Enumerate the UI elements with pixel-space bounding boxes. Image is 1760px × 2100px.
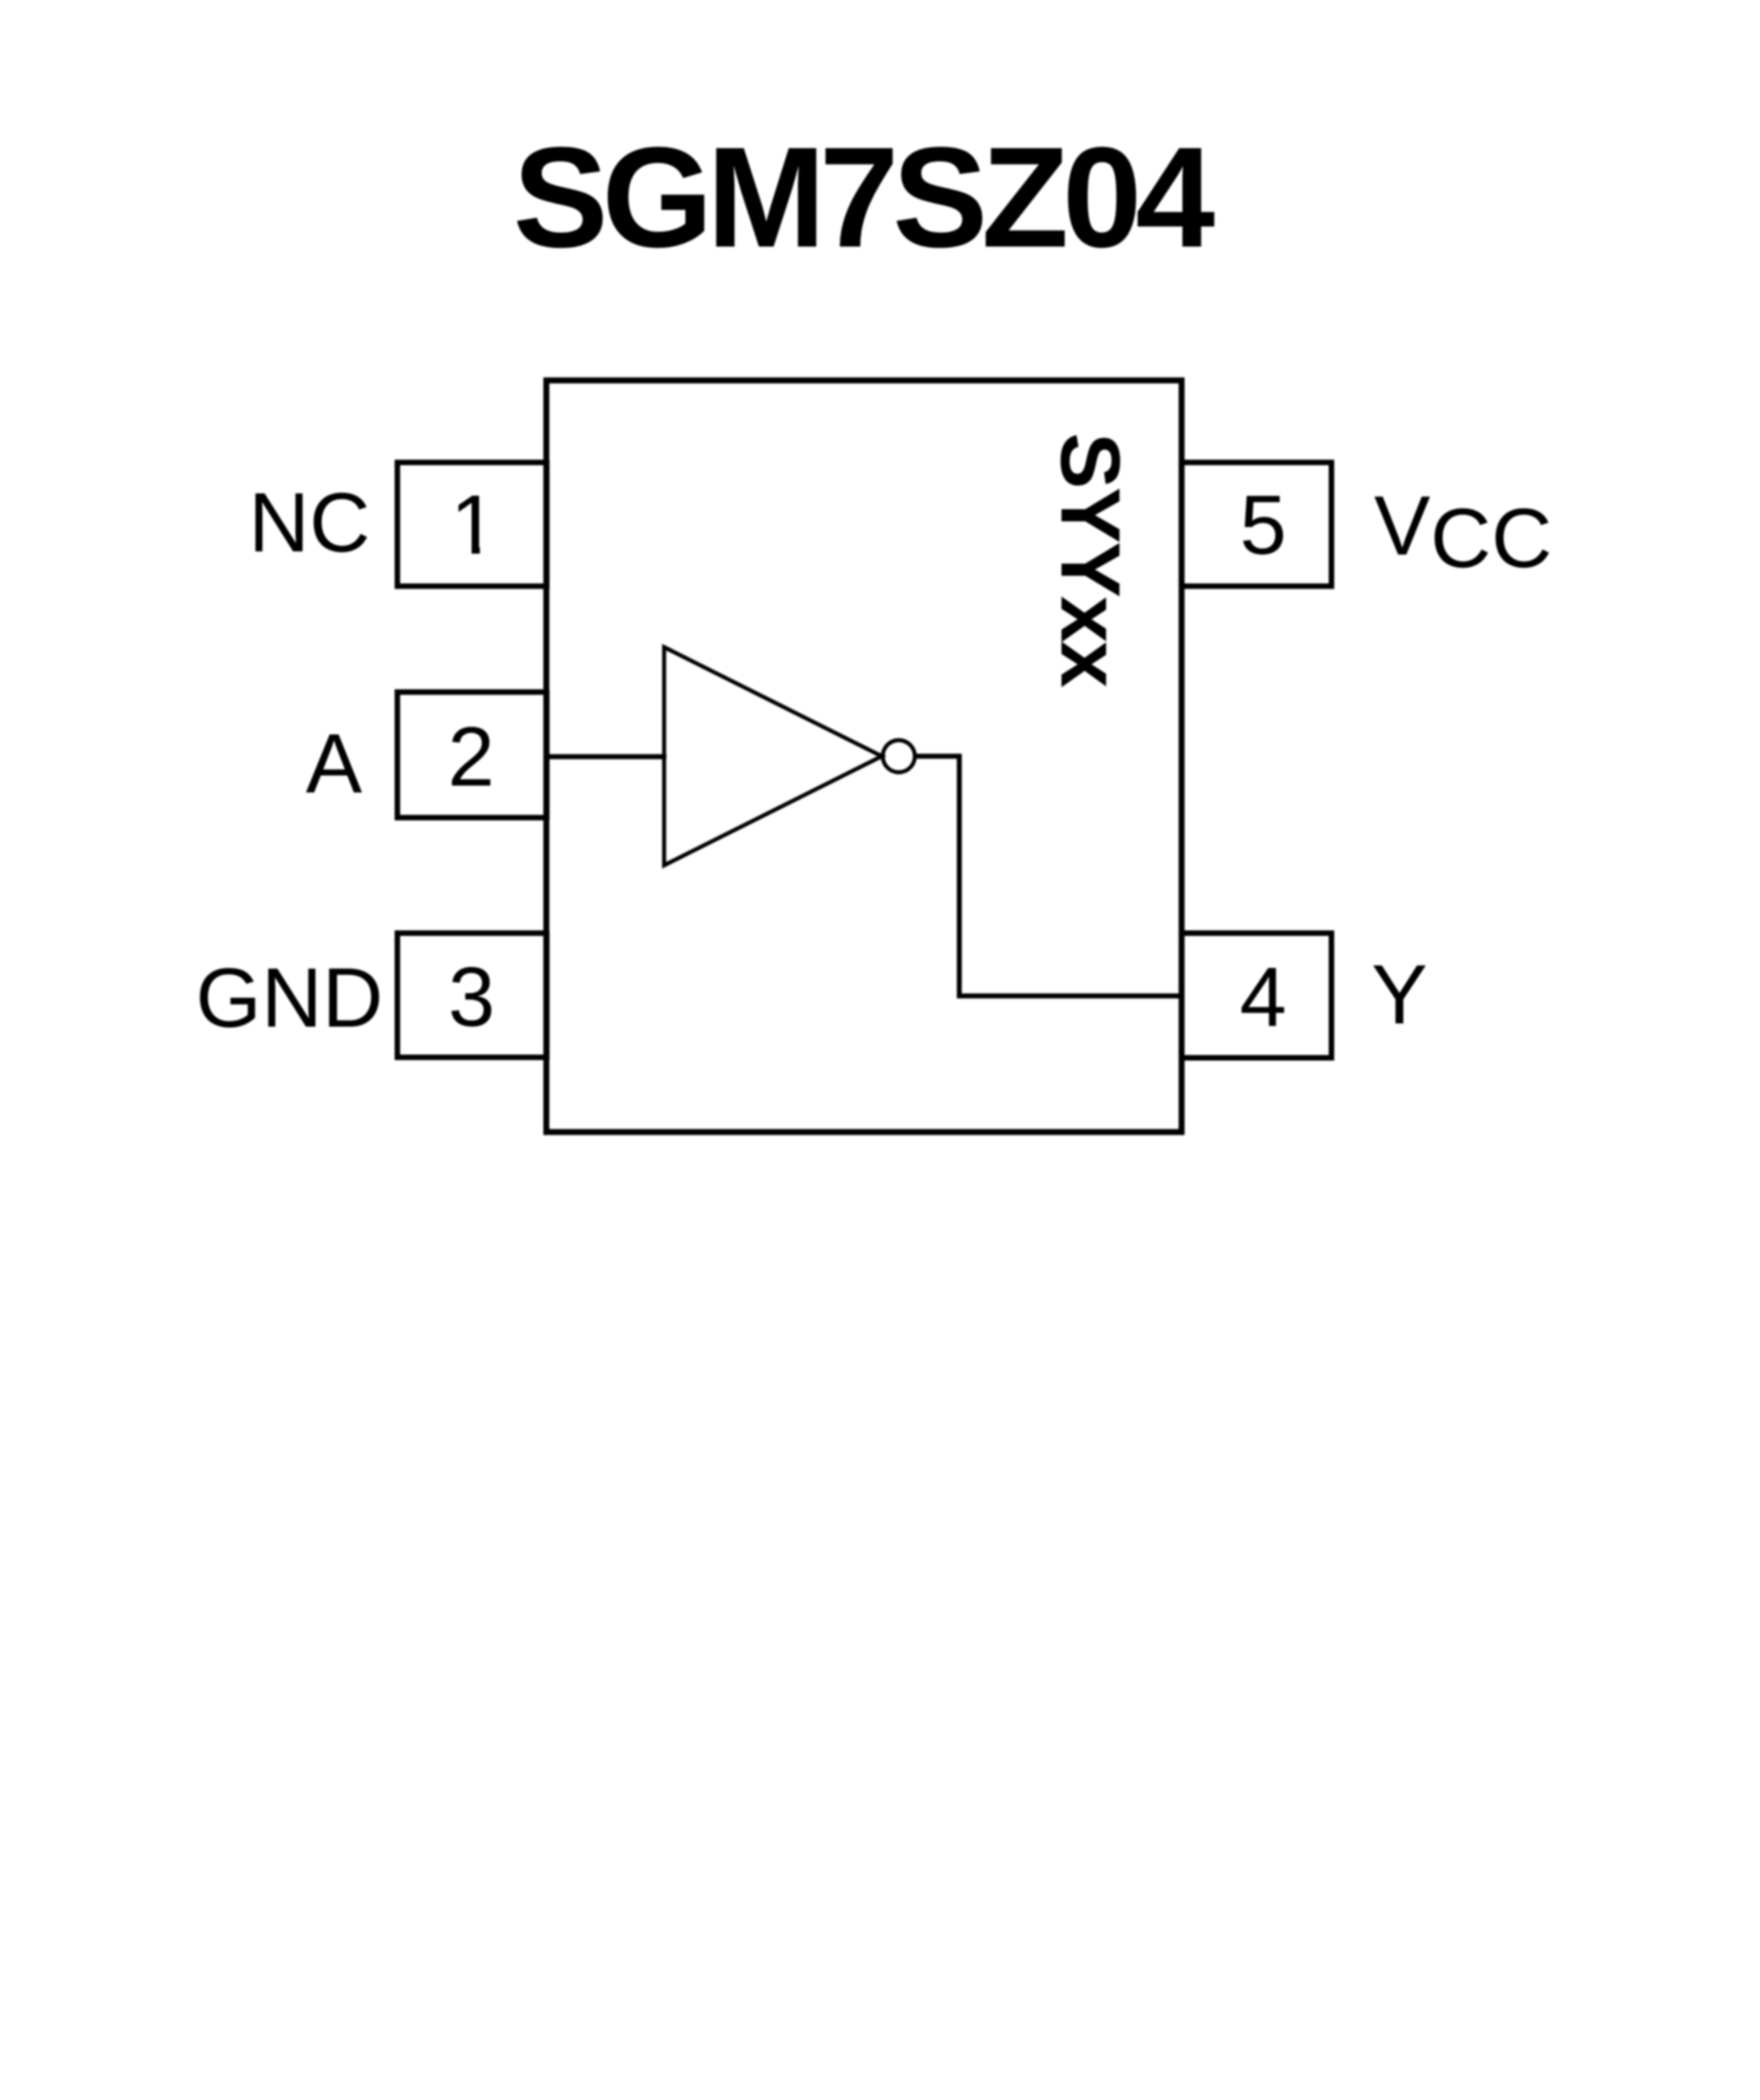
pin 5 box: [1182, 463, 1332, 587]
svg-text:3: 3: [448, 951, 495, 1044]
svg-text:SGM7SZ04: SGM7SZ04: [513, 118, 1215, 278]
svg-text:2: 2: [447, 710, 494, 804]
pin 4 box: [1182, 933, 1332, 1058]
IC body U1: [546, 380, 1182, 1132]
svg-text:4: 4: [1239, 951, 1286, 1045]
svg-text:NC: NC: [248, 477, 370, 570]
pin 2 box: [398, 692, 547, 818]
svg-text:VCC: VCC: [1374, 479, 1552, 586]
wire from bubble to pin 4: [915, 756, 1182, 996]
svg-text:5: 5: [1239, 478, 1286, 572]
inverter U1A triangle: [665, 647, 883, 865]
svg-text:1: 1: [450, 478, 497, 572]
svg-text:Y: Y: [1371, 949, 1427, 1042]
pin 3 box: [398, 933, 547, 1058]
svg-text:SYYxx: SYYxx: [1043, 433, 1137, 687]
pin 1 box: [398, 463, 547, 587]
svg-text:A: A: [306, 718, 363, 811]
wire from pin 2 to inverter input: [546, 754, 666, 759]
svg-text:GND: GND: [196, 951, 383, 1045]
inverter output bubble: [883, 741, 915, 773]
